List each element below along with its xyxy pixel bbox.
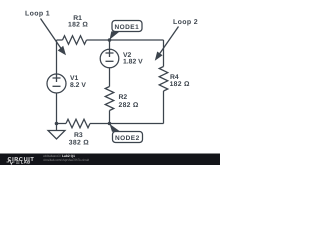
wire top (node1 net) [57, 39, 164, 41]
annotation Loop 2 [155, 19, 198, 61]
wire right [163, 40, 165, 124]
svg-text:LAB: LAB [21, 160, 31, 165]
junction dot NODE1 [108, 38, 112, 42]
svg-text:Loop 1: Loop 1 [25, 11, 50, 18]
footer bar [0, 154, 220, 166]
resistor R2 [105, 87, 139, 111]
node label NODE2 [110, 124, 143, 143]
svg-text:NODE1: NODE1 [115, 24, 140, 31]
svg-text:Loop 2: Loop 2 [173, 19, 198, 26]
resistor R3 [66, 119, 90, 146]
node label NODE1 [110, 21, 142, 40]
wire middle branch lower [109, 111, 111, 124]
svg-text:182 Ω: 182 Ω [170, 81, 190, 88]
junction dot NODE2 [108, 122, 112, 126]
wire left [56, 40, 58, 74]
svg-text:R3: R3 [74, 132, 83, 139]
ground [48, 124, 65, 140]
svg-text:NODE2: NODE2 [115, 135, 140, 142]
wire middle branch mid [109, 68, 111, 87]
resistor R4 [159, 67, 190, 91]
svg-text:382 Ω: 382 Ω [69, 140, 89, 147]
footer logo CircuitLab [7, 157, 35, 165]
voltage source V1 [47, 74, 86, 93]
wire left lower [56, 93, 58, 124]
svg-text:1.82 V: 1.82 V [123, 59, 143, 66]
wire middle branch upper [109, 40, 111, 49]
svg-text:R2: R2 [119, 94, 128, 101]
voltage source V2 [100, 49, 143, 68]
svg-text:8.2 V: 8.2 V [70, 82, 86, 89]
wire bottom (node2 net) [57, 123, 164, 125]
svg-text:182 Ω: 182 Ω [68, 22, 88, 29]
svg-text:R4: R4 [170, 74, 179, 81]
annotation Loop 1 [25, 11, 66, 56]
resistor R1 [63, 15, 89, 45]
junction dot ground [55, 122, 59, 126]
svg-text:282 Ω: 282 Ω [119, 102, 139, 109]
svg-text:circuitlab.com/c/sprvfua78h7k-: circuitlab.com/c/sprvfua78h7k-circuit [43, 158, 89, 162]
